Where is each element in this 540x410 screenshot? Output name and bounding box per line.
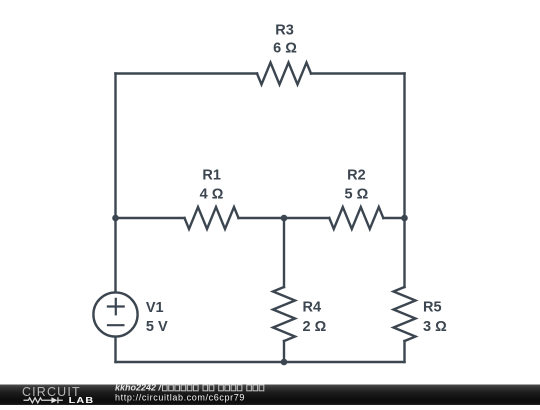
svg-text:R2: R2: [347, 167, 366, 183]
svg-text:R5: R5: [423, 299, 442, 315]
svg-text:5 V: 5 V: [146, 319, 168, 335]
resistor R5: [394, 287, 416, 341]
svg-text:6 Ω: 6 Ω: [273, 41, 297, 57]
voltage source V1 circle: [93, 292, 137, 336]
wire bottom rail: [116, 361, 405, 363]
wire node B to R2: [284, 217, 329, 219]
resistor R4: [273, 287, 295, 341]
svg-text:R4: R4: [303, 299, 322, 315]
wire R2 to node C: [383, 217, 404, 219]
svg-text:kkho2242 /: kkho2242 /: [115, 383, 163, 393]
node A junction dot: [112, 215, 119, 222]
footer title tofu boxes: [163, 385, 264, 391]
svg-text:R1: R1: [202, 167, 221, 183]
wire node A down to V1 top: [114, 218, 116, 292]
svg-text:2 Ω: 2 Ω: [303, 319, 327, 335]
wire R1 to node B: [239, 217, 285, 219]
wire V1 bottom to bottom rail: [114, 337, 116, 362]
wire right vertical upper: [403, 74, 405, 219]
resistor R1: [185, 207, 239, 229]
svg-text:4 Ω: 4 Ω: [200, 186, 224, 202]
svg-text:V1: V1: [146, 300, 164, 316]
node D junction dot: [281, 359, 288, 366]
resistor R3: [257, 63, 311, 85]
wire top rail right segment: [311, 72, 405, 74]
svg-text:http://circuitlab.com/c6cpr79: http://circuitlab.com/c6cpr79: [115, 393, 245, 403]
svg-text:3 Ω: 3 Ω: [423, 319, 447, 335]
wire top-left vertical (node A to top rail): [114, 74, 116, 219]
V1 minus sign: [108, 324, 123, 326]
svg-text:R3: R3: [275, 23, 294, 39]
wire node B down to R4: [283, 218, 285, 287]
wire middle rail: node A to R1: [116, 217, 185, 219]
svg-text:5 Ω: 5 Ω: [345, 186, 369, 202]
wire R5 to bottom rail: [403, 341, 405, 362]
wire R4 to bottom node D: [283, 341, 285, 362]
svg-text:LAB: LAB: [69, 396, 95, 405]
footer bar: [0, 385, 540, 406]
resistor R2: [329, 207, 383, 229]
wire node C down to R5: [403, 218, 405, 287]
CircuitLab logo zigzag and diode: [24, 397, 63, 403]
V1 plus sign: [108, 299, 124, 315]
node C junction dot: [401, 215, 408, 222]
CircuitLab logo diode triangle: [51, 397, 57, 403]
node B junction dot: [281, 215, 288, 222]
wire top rail left segment: [116, 72, 258, 74]
